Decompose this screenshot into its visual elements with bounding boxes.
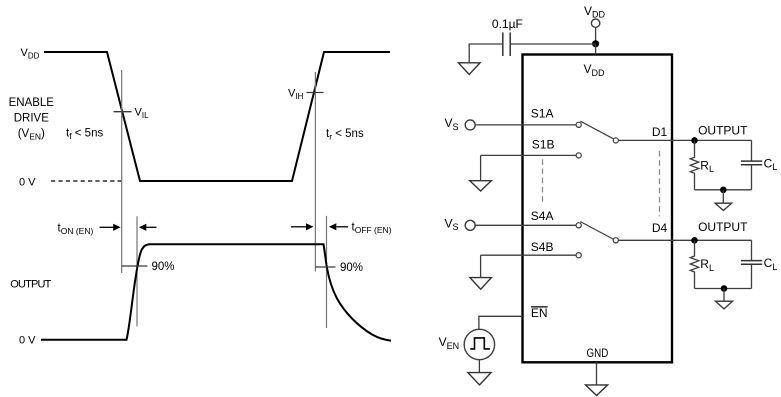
junction load 1 ground <box>720 187 727 194</box>
marker line output off <box>326 216 328 328</box>
wire VS to S1A <box>475 124 576 126</box>
svg-text:D4: D4 <box>652 221 668 235</box>
capacitor C1 0.1uF <box>502 32 504 56</box>
wire VS to S4A <box>475 224 576 226</box>
svg-text:VEN: VEN <box>439 335 460 351</box>
wire D1 to load <box>618 139 751 141</box>
90% tick on <box>122 265 148 267</box>
svg-text:RL: RL <box>700 158 714 174</box>
svg-text:(VEN): (VEN) <box>18 128 45 142</box>
resistor RL 4 <box>690 240 698 288</box>
switch arm S4 <box>580 222 613 240</box>
dashed continuation right <box>659 151 661 216</box>
svg-text:OUTPUT: OUTPUT <box>698 220 748 234</box>
svg-text:S4A: S4A <box>531 209 554 223</box>
svg-text:VDD: VDD <box>584 4 606 19</box>
svg-text:0 V: 0 V <box>19 335 36 347</box>
junction D4 output <box>691 237 698 244</box>
dashed continuation left <box>542 159 544 203</box>
arrow tON right <box>146 226 157 228</box>
svg-text:VIH: VIH <box>288 88 304 101</box>
wire capacitor to ground <box>469 44 503 63</box>
contact D4 <box>613 238 618 243</box>
wire EN to source <box>479 316 523 329</box>
arrow tOFF right <box>337 226 349 228</box>
junction VDD <box>592 40 599 47</box>
90% tick off <box>315 266 335 268</box>
VIL tick <box>114 111 132 113</box>
wire VEN to ground <box>478 360 480 373</box>
svg-text:RL: RL <box>700 257 714 273</box>
svg-text:0.1µF: 0.1µF <box>492 17 523 31</box>
ground (bypass cap) <box>458 63 480 75</box>
wire load 4 bottom <box>695 288 752 290</box>
svg-text:ENABLE: ENABLE <box>9 97 55 109</box>
ground (load 4) <box>723 289 725 302</box>
ground (S4B) <box>470 278 492 290</box>
svg-text:tON (EN): tON (EN) <box>58 223 94 237</box>
ground (VEN) <box>468 373 491 385</box>
svg-text:VIL: VIL <box>135 107 150 120</box>
svg-text:0 V: 0 V <box>19 177 36 189</box>
svg-text:CL: CL <box>764 256 778 272</box>
marker line rise edge <box>314 72 316 272</box>
wire capacitor to junction <box>510 43 595 45</box>
junction load 4 ground <box>721 285 728 292</box>
wire S1B <box>481 154 577 156</box>
wire load 1 bottom <box>695 189 752 191</box>
svg-text:DRIVE: DRIVE <box>14 112 49 124</box>
wire S4B to ground <box>480 255 482 277</box>
wire junction to box <box>595 44 597 55</box>
ground (GND pin) <box>586 385 608 396</box>
IC box U1 <box>523 55 673 363</box>
ground (load 1) <box>722 190 724 203</box>
wire GND pin <box>596 362 598 384</box>
svg-text:S1A: S1A <box>531 106 554 120</box>
svg-text:VS: VS <box>445 216 459 232</box>
svg-text:GND: GND <box>587 346 609 360</box>
output waveform <box>41 244 391 340</box>
wire S4B <box>481 254 577 256</box>
VIH tick <box>307 92 324 94</box>
svg-text:S1B: S1B <box>532 137 555 151</box>
svg-text:VS: VS <box>445 116 459 132</box>
svg-text:D1: D1 <box>652 125 668 139</box>
svg-text:EN: EN <box>531 306 548 320</box>
svg-text:VDD: VDD <box>21 47 40 61</box>
switch arm S1 <box>580 121 613 139</box>
svg-text:90%: 90% <box>152 261 175 273</box>
resistor RL 1 <box>690 140 698 189</box>
0V dashed reference <box>51 180 122 182</box>
marker line fall edge <box>121 70 123 273</box>
arrow tOFF left <box>291 226 306 228</box>
svg-text:VDD: VDD <box>584 62 606 78</box>
contact D1 <box>613 138 618 143</box>
junction D1 output <box>691 137 698 144</box>
svg-text:tr < 5ns: tr < 5ns <box>326 128 364 142</box>
enable drive waveform <box>44 52 390 181</box>
svg-text:tf < 5ns: tf < 5ns <box>66 128 103 142</box>
marker line output on <box>136 216 138 326</box>
capacitor CL 4 <box>751 240 753 260</box>
svg-text:OUTPUT: OUTPUT <box>698 123 748 137</box>
svg-text:90%: 90% <box>340 262 363 274</box>
svg-text:tOFF (EN): tOFF (EN) <box>352 222 392 236</box>
svg-text:OUTPUT: OUTPUT <box>10 279 51 291</box>
source VEN <box>464 329 494 359</box>
svg-text:S4B: S4B <box>531 240 554 254</box>
svg-text:CL: CL <box>764 156 778 172</box>
arrow tON left <box>100 226 114 228</box>
capacitor CL 1 <box>751 140 753 161</box>
wire S1B to ground <box>480 155 482 180</box>
ground (S1B) <box>470 181 492 191</box>
wire VDD terminal to junction <box>595 28 597 44</box>
wire D4 to load <box>618 239 751 241</box>
